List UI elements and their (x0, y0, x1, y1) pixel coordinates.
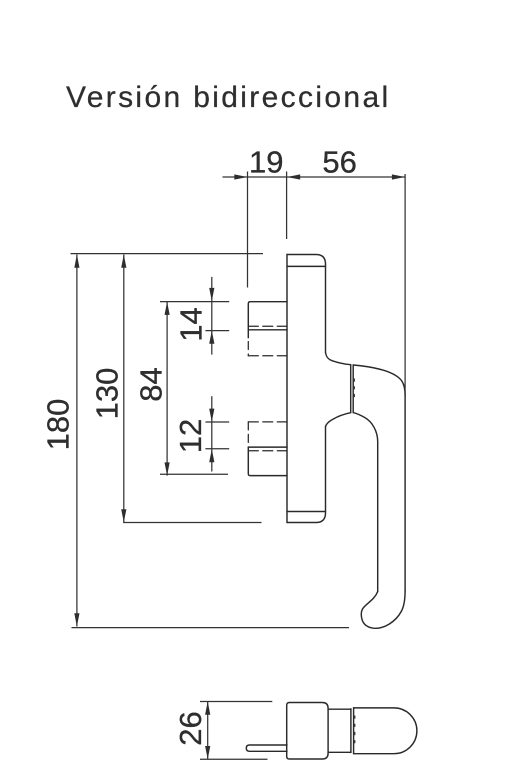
bottom view neck top edge (328, 708, 351, 710)
bottom extension line 130 (123, 522, 261, 524)
84 dimension line (166, 302, 168, 476)
arrow 56 left (pointing left) (287, 174, 300, 179)
top fixing block hidden left edge (247, 342, 249, 356)
14 lower tick (205, 330, 229, 332)
extension line 19 left (247, 172, 249, 288)
plate bottom cap (287, 427, 326, 523)
neck joint line left (350, 365, 352, 413)
12 dimension line (211, 396, 213, 471)
arrow 56 right (pointing right) (392, 174, 405, 179)
arrow 130 top (pointing up) (121, 255, 126, 268)
top dimension line 19/56 (223, 176, 406, 178)
plate top band line (287, 265, 326, 267)
top extension line 180/130 (71, 253, 264, 255)
bottom extension line 84 (160, 473, 228, 475)
top fixing block hidden hole line (248, 325, 287, 327)
bottom view spindle (246, 745, 287, 751)
bottom view grip joint line left (350, 709, 352, 753)
bottom fixing block hidden hole line (248, 450, 287, 452)
top fixing block hidden bottom (248, 355, 287, 357)
svg-text:130: 130 (90, 368, 125, 420)
arrow 14 lower (pointing up) (209, 331, 214, 344)
neck top face (326, 352, 351, 364)
svg-text:Versión bidireccional: Versión bidireccional (66, 81, 391, 114)
plate bottom band line (287, 511, 326, 513)
180 dimension line (76, 255, 78, 627)
bottom view grip section (354, 708, 417, 754)
arrow 12 upper (pointing down) (209, 409, 214, 422)
neck joint knurl ticks (353, 379, 355, 399)
arrow 19 left (pointing right) (234, 174, 247, 179)
bottom extension line 180 (72, 627, 350, 629)
bottom view neck bottom edge (328, 751, 351, 753)
neck bottom face (326, 413, 351, 427)
arrow 26 bottom (pointing down) (205, 746, 210, 759)
bottom view rose block (287, 703, 328, 760)
grip hook end (361, 591, 405, 629)
arrow 180 top (pointing up) (74, 255, 79, 268)
bottom extension line 26 (200, 758, 268, 760)
arrow 12 lower (pointing up) (209, 449, 214, 462)
arrow 130 bottom (pointing down) (121, 509, 126, 522)
neck joint line right (352, 365, 354, 413)
bottom fixing block solid outline (248, 447, 287, 476)
bottom view joint knurl ticks (354, 716, 356, 748)
plate top cap (287, 255, 326, 353)
arrow 180 bottom (pointing down) (74, 613, 79, 626)
130 dimension line (123, 255, 125, 523)
grip inner edge (353, 413, 378, 592)
26 dimension line (207, 702, 209, 760)
bottom fixing block hidden left edge (247, 422, 249, 444)
grip outer edge (404, 396, 406, 591)
bottom fixing block step line (248, 446, 287, 448)
svg-text:12: 12 (173, 419, 208, 453)
arrow 26 top (pointing up) (205, 702, 210, 715)
extension line 56 right (404, 174, 406, 395)
12 upper tick (205, 421, 229, 423)
extension line 19/56 shared (286, 172, 288, 240)
arrow 14 upper (pointing down) (209, 288, 214, 301)
svg-text:84: 84 (133, 367, 168, 401)
top extension line 26 (200, 701, 272, 703)
arrow 84 top (pointing up) (165, 302, 170, 315)
grip upper sweep (353, 365, 405, 396)
svg-text:180: 180 (41, 399, 76, 451)
svg-text:26: 26 (173, 711, 208, 745)
svg-text:19: 19 (249, 144, 283, 179)
top extension line 84/14 (160, 301, 229, 303)
bottom view grip joint line right (353, 708, 355, 754)
arrow 84 bottom (pointing down) (165, 462, 170, 475)
svg-text:14: 14 (173, 307, 208, 341)
bottom fixing block hidden top (248, 421, 287, 423)
14 dimension line (211, 277, 213, 355)
top fixing block step line (248, 329, 287, 331)
12 lower tick (205, 448, 229, 450)
svg-text:56: 56 (322, 144, 356, 179)
plate left edge (286, 255, 288, 523)
top fixing block solid outline (248, 302, 287, 338)
